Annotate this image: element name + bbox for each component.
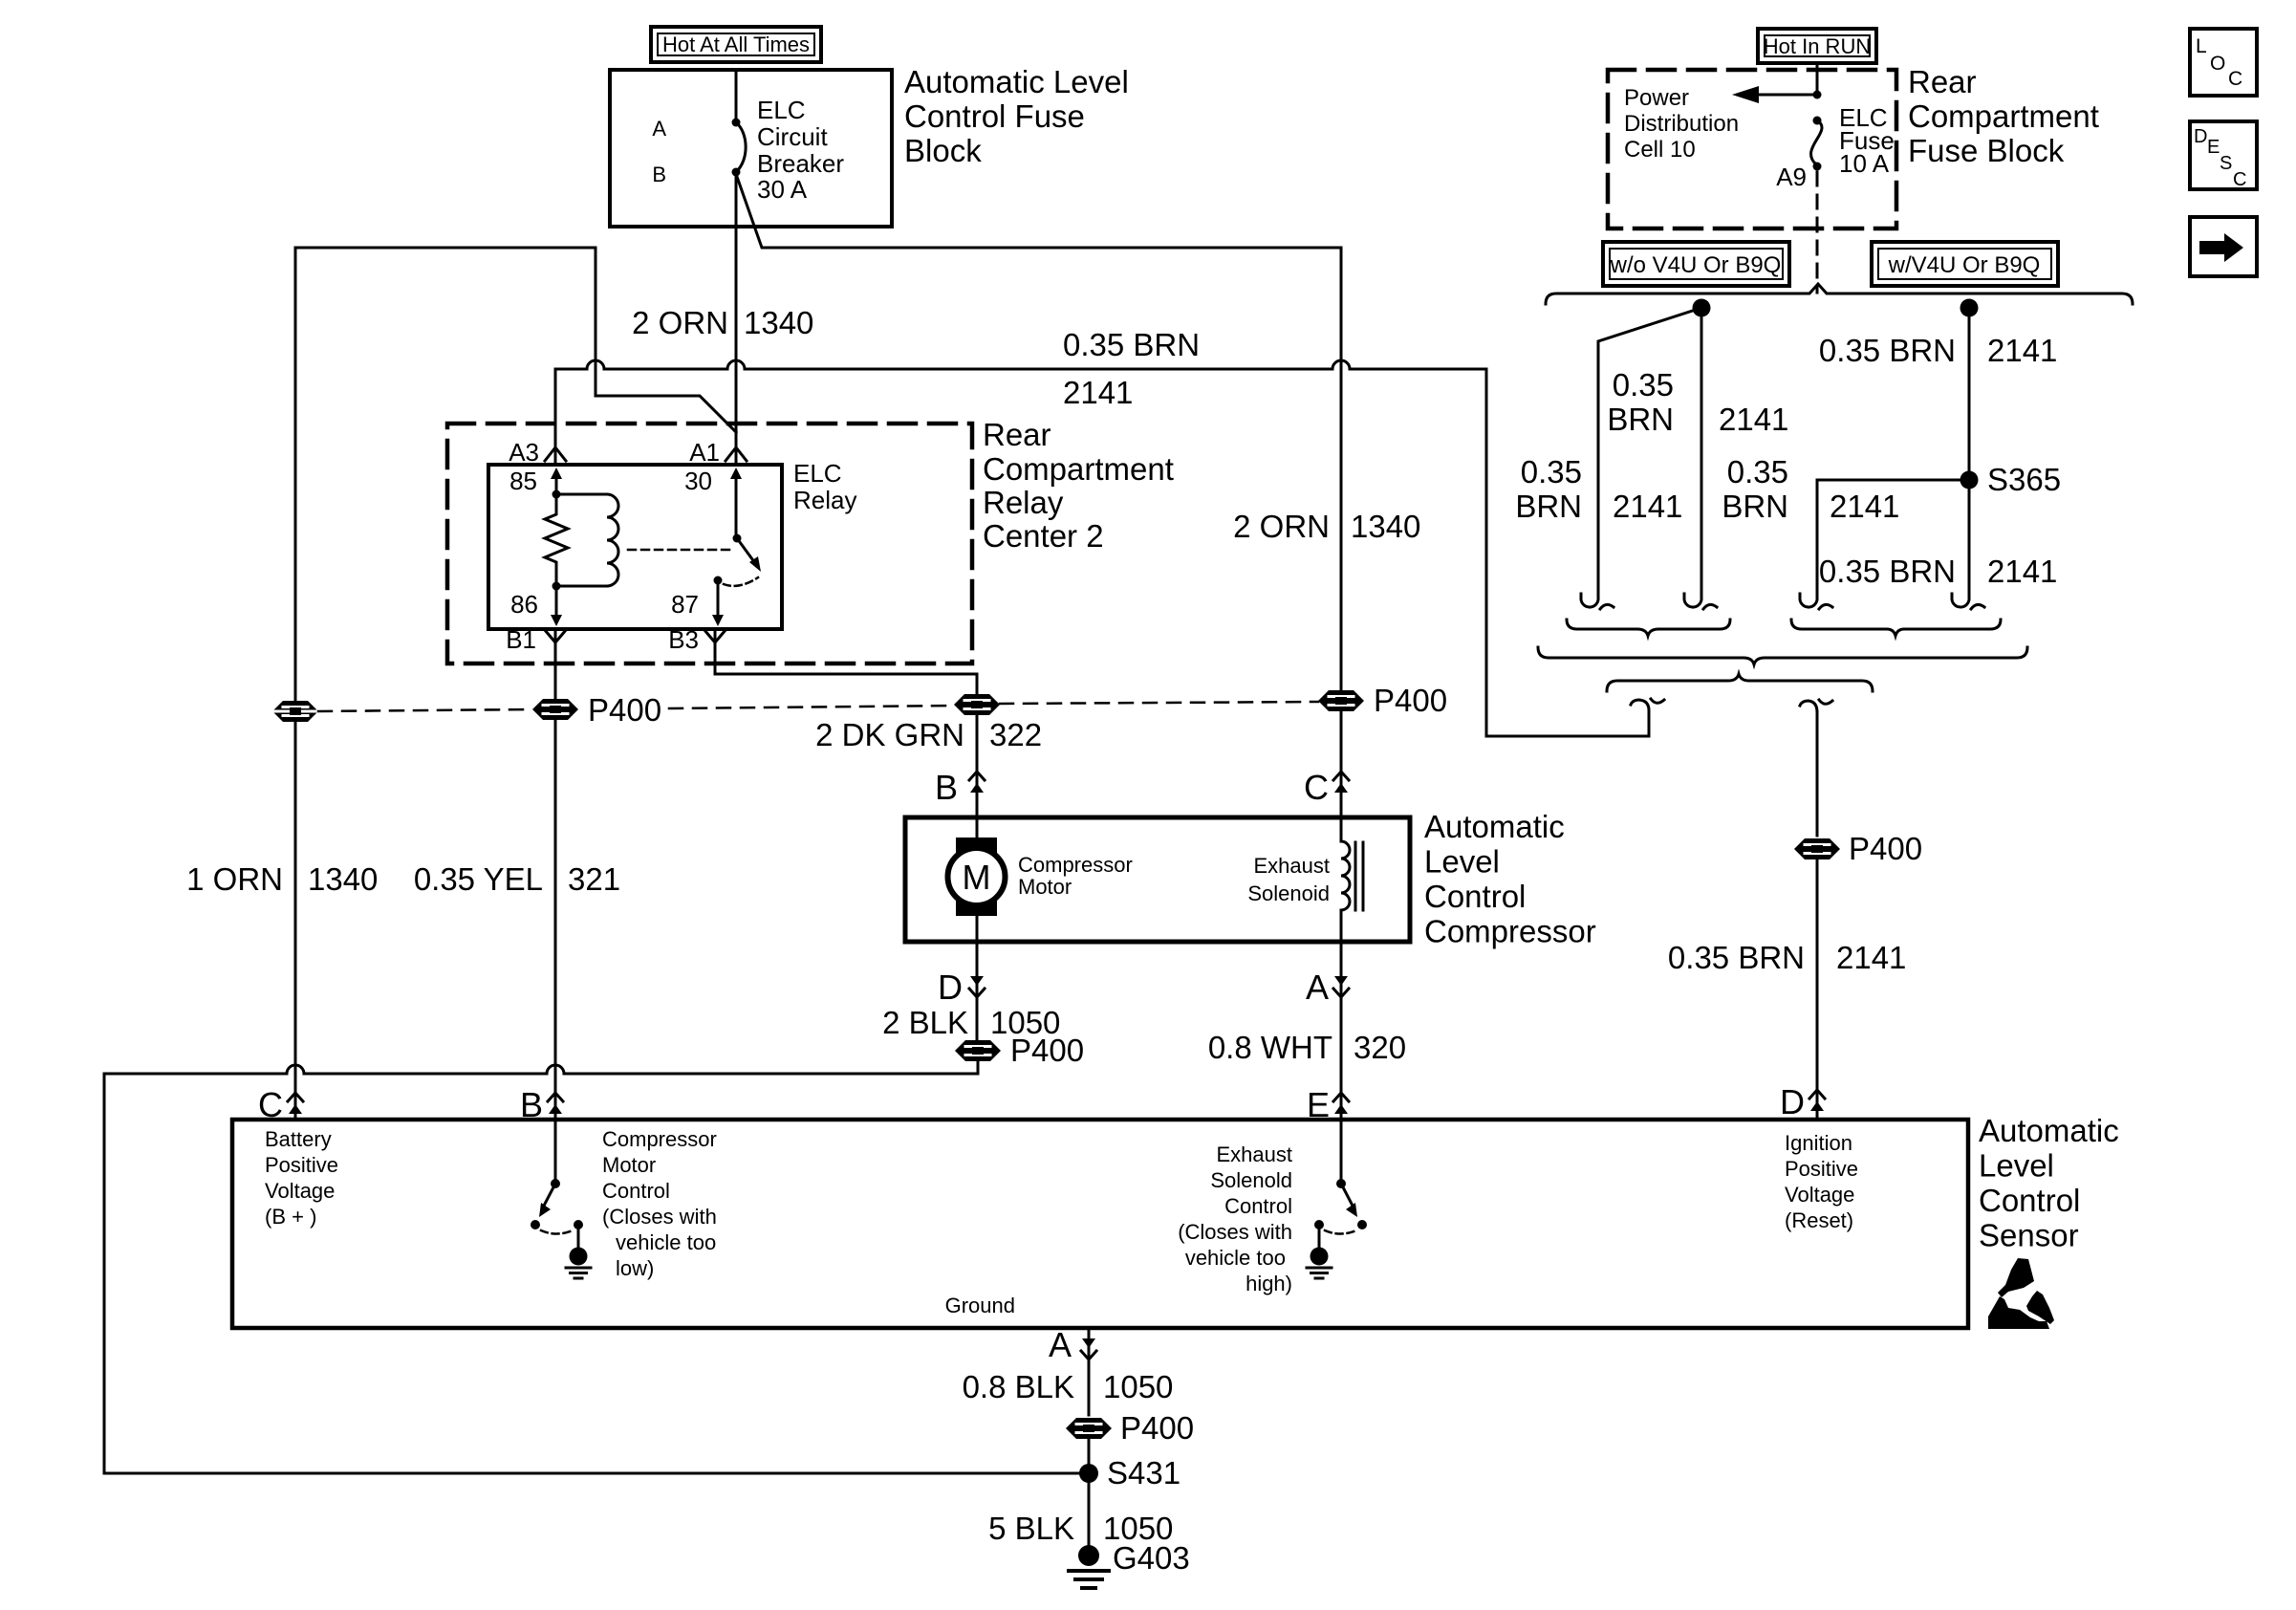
svg-text:high): high) bbox=[1245, 1272, 1292, 1295]
header box: Hot In RUN bbox=[1758, 29, 1876, 63]
node: fuse bottom A9 bbox=[1813, 163, 1822, 171]
svg-text:Compressor: Compressor bbox=[1424, 914, 1596, 949]
svg-text:S: S bbox=[2220, 153, 2232, 174]
wire: B3 to compressor B (2 DK GRN 322) bbox=[715, 629, 977, 817]
svg-text:0.35 BRN: 0.35 BRN bbox=[1819, 554, 1956, 589]
svg-text:Motor: Motor bbox=[1018, 875, 1072, 899]
dashed wire from A9 to brace bbox=[1816, 172, 1819, 293]
title: Automatic Level Control Sensor bbox=[1979, 1113, 2119, 1253]
svg-text:2 ORN: 2 ORN bbox=[1233, 509, 1330, 544]
svg-text:ELC: ELC bbox=[793, 459, 842, 488]
version box: w/o V4U Or B9Q bbox=[1603, 242, 1789, 286]
svg-text:P400: P400 bbox=[588, 692, 661, 728]
wire: 2 ORN 1340 right vertical down to compressor C bbox=[1340, 248, 1343, 817]
wire: P400 left to ground run bbox=[104, 1061, 1089, 1473]
svg-text:87: 87 bbox=[671, 590, 699, 619]
pin 85 arrow bbox=[555, 478, 558, 494]
svg-text:Control: Control bbox=[602, 1179, 670, 1203]
svg-text:Ignition: Ignition bbox=[1785, 1131, 1852, 1155]
wire: S365 left branch bbox=[1817, 480, 1969, 585]
switch arm (motor control) bbox=[543, 1184, 555, 1207]
svg-text:Automatic: Automatic bbox=[1979, 1113, 2119, 1148]
node: contact 87 bbox=[714, 577, 723, 585]
node: splice left (w/o) bbox=[1693, 299, 1711, 317]
label: 0.35 BRN 2141 (w/o right) bbox=[1607, 367, 1788, 437]
rear compartment fuse block dashed box bbox=[1608, 70, 1896, 228]
dashed arc contact to arm bbox=[724, 577, 758, 586]
wire: w/o right drop bbox=[1700, 308, 1703, 585]
ESD symbol bbox=[1988, 1258, 2054, 1329]
resistor R (relay) bbox=[545, 494, 568, 586]
ground hatches bbox=[566, 1268, 591, 1278]
hook end bbox=[1800, 583, 1832, 609]
wire: 0.35 BRN down right side to brace bbox=[1486, 369, 1649, 736]
svg-text:2141: 2141 bbox=[1063, 375, 1133, 410]
svg-text:(Closes with: (Closes with bbox=[1178, 1220, 1292, 1244]
svg-text:2141: 2141 bbox=[1830, 489, 1899, 524]
svg-text:0.35: 0.35 bbox=[1613, 367, 1674, 402]
svg-text:Center 2: Center 2 bbox=[983, 518, 1104, 554]
wire: diagonal to left drop bbox=[1598, 308, 1701, 585]
label: 2 ORN 1340 (right) bbox=[1233, 509, 1420, 544]
label: 0.35 BRN 2141 bbox=[1063, 327, 1200, 410]
corner box: LOC bbox=[2190, 29, 2257, 96]
node: distribution tap bbox=[1813, 91, 1822, 99]
wire: 0.35 YEL 321 B1 down to sensor B bbox=[554, 629, 557, 1120]
svg-text:A: A bbox=[652, 117, 666, 141]
svg-text:1 ORN: 1 ORN bbox=[186, 861, 283, 897]
pin B3 chevron bbox=[704, 630, 726, 642]
fuse block: Automatic Level Control Fuse Block box bbox=[610, 70, 892, 227]
svg-text:Cell 10: Cell 10 bbox=[1624, 137, 1696, 163]
svg-text:Hot At All Times: Hot At All Times bbox=[662, 33, 810, 56]
relay center dashed box bbox=[447, 424, 972, 664]
connector P400 (2 BLK) bbox=[955, 1040, 1001, 1061]
svg-text:Control: Control bbox=[1224, 1194, 1292, 1218]
svg-text:w/o V4U Or B9Q: w/o V4U Or B9Q bbox=[1610, 252, 1782, 278]
wire: A3 vertical bbox=[554, 369, 557, 465]
svg-text:C: C bbox=[1304, 768, 1329, 807]
svg-text:P400: P400 bbox=[1010, 1033, 1084, 1068]
node: contact right bbox=[574, 1220, 583, 1229]
svg-text:A1: A1 bbox=[689, 438, 720, 467]
svg-text:86: 86 bbox=[510, 590, 538, 619]
ground stem and ball bbox=[577, 1225, 580, 1249]
dashed harness line between P400s bbox=[318, 709, 532, 711]
svg-text:Positive: Positive bbox=[1785, 1157, 1858, 1181]
svg-text:0.8 BLK: 0.8 BLK bbox=[963, 1369, 1074, 1404]
wire: 1 ORN 1340 left vertical down to sensor C bbox=[294, 248, 297, 1120]
svg-text:M: M bbox=[963, 858, 991, 897]
svg-text:(B + ): (B + ) bbox=[265, 1205, 316, 1229]
svg-text:E: E bbox=[2207, 137, 2220, 158]
svg-text:1340: 1340 bbox=[308, 861, 378, 897]
hook end bbox=[1581, 583, 1614, 609]
svg-text:P400: P400 bbox=[1849, 831, 1922, 866]
svg-text:2141: 2141 bbox=[1719, 402, 1788, 437]
brace: small left bbox=[1567, 620, 1730, 636]
svg-text:Battery: Battery bbox=[265, 1127, 332, 1151]
svg-text:Automatic Level: Automatic Level bbox=[904, 64, 1129, 99]
svg-text:Distribution: Distribution bbox=[1624, 111, 1739, 137]
wire: coil bottom link bbox=[556, 585, 607, 588]
svg-text:Voltage: Voltage bbox=[265, 1179, 335, 1203]
svg-text:Compartment: Compartment bbox=[983, 451, 1174, 487]
ground hatches E bbox=[1307, 1268, 1332, 1278]
svg-text:Sensor: Sensor bbox=[1979, 1218, 2079, 1253]
title: Automatic Level Control Fuse Block bbox=[904, 64, 1129, 168]
label: Exhaust Solenoid bbox=[1247, 854, 1330, 905]
switch arm (solenoid control) bbox=[1341, 1184, 1354, 1207]
svg-text:1340: 1340 bbox=[1351, 509, 1420, 544]
svg-text:Fuse Block: Fuse Block bbox=[1908, 133, 2065, 168]
wire: to S365 bbox=[1968, 308, 1971, 480]
wire: Hot In RUN into fuse bbox=[1816, 63, 1819, 95]
label: 0.35 BRN 2141 (to D) bbox=[1668, 940, 1907, 975]
dashed arc switch B bbox=[541, 1230, 573, 1234]
svg-text:D: D bbox=[2194, 126, 2207, 147]
svg-text:A3: A3 bbox=[509, 438, 539, 467]
svg-text:D: D bbox=[1780, 1082, 1805, 1121]
label: 0.35 BRN 2141 (S365 left) bbox=[1722, 454, 1899, 524]
svg-text:B1: B1 bbox=[506, 625, 536, 654]
sensor box: Automatic Level Control Sensor bbox=[232, 1120, 1968, 1328]
svg-text:Solenold: Solenold bbox=[1210, 1168, 1292, 1192]
svg-text:0.35: 0.35 bbox=[1521, 454, 1582, 490]
svg-text:B3: B3 bbox=[668, 625, 699, 654]
svg-text:Control: Control bbox=[1424, 879, 1526, 914]
pin C (sensor) bbox=[288, 1093, 303, 1114]
connector P400 (2 ORN right) bbox=[1318, 690, 1364, 711]
hook end bbox=[1684, 583, 1717, 609]
svg-text:P400: P400 bbox=[1374, 683, 1447, 718]
svg-text:Level: Level bbox=[1979, 1148, 2054, 1184]
wire: E pin into switch bbox=[1340, 1120, 1343, 1184]
wire: output to P400 D bbox=[1800, 700, 1832, 836]
label: 2 DK GRN 322 bbox=[815, 717, 1042, 752]
svg-text:Exhaust: Exhaust bbox=[1254, 854, 1331, 878]
corner box: arrow bbox=[2190, 217, 2257, 276]
svg-text:2141: 2141 bbox=[1613, 489, 1682, 524]
ground G403 bbox=[1069, 1545, 1109, 1588]
svg-text:30 A: 30 A bbox=[757, 175, 808, 204]
pin B (sensor) bbox=[548, 1093, 563, 1114]
svg-text:C: C bbox=[258, 1085, 283, 1124]
title: Rear Compartment Relay Center 2 bbox=[983, 417, 1174, 554]
brace: over (output) bbox=[1607, 674, 1873, 691]
svg-text:Compartment: Compartment bbox=[1908, 98, 2099, 134]
svg-text:2141: 2141 bbox=[1987, 554, 2057, 589]
svg-text:S365: S365 bbox=[1987, 462, 2061, 497]
svg-text:vehicle too: vehicle too bbox=[616, 1230, 716, 1254]
svg-text:Power: Power bbox=[1624, 85, 1689, 111]
brace: big under bbox=[1538, 647, 2027, 664]
pin A (compressor) bbox=[1333, 976, 1349, 997]
svg-text:A: A bbox=[1306, 968, 1329, 1007]
pin A1 chevron bbox=[726, 447, 747, 461]
wire: diagonal from breaker B to right feed bbox=[736, 174, 1341, 248]
pin B (compressor) bbox=[969, 772, 985, 793]
svg-text:B: B bbox=[520, 1085, 543, 1124]
svg-text:Voltage: Voltage bbox=[1785, 1183, 1854, 1207]
fuse ELC Fuse 10A curve bbox=[1811, 120, 1822, 164]
connector P400 (B1) bbox=[532, 699, 578, 720]
svg-text:(Reset): (Reset) bbox=[1785, 1208, 1853, 1232]
compressor motor M bbox=[948, 838, 1006, 916]
svg-text:Control Fuse: Control Fuse bbox=[904, 98, 1085, 134]
node A of circuit breaker bbox=[732, 119, 741, 127]
svg-text:E: E bbox=[1307, 1085, 1330, 1124]
label: 0.35 BRN 2141 (above S365) bbox=[1819, 333, 2058, 368]
node: switch pivot E bbox=[1336, 1179, 1346, 1188]
connector P400 (2 DK GRN) bbox=[954, 694, 1000, 715]
svg-text:Solenoid: Solenoid bbox=[1247, 881, 1330, 905]
node: contact left bbox=[531, 1220, 540, 1229]
header box: Hot At All Times bbox=[651, 27, 821, 62]
svg-text:1050: 1050 bbox=[1103, 1369, 1173, 1404]
svg-text:ELC: ELC bbox=[757, 96, 806, 124]
svg-text:Compressor: Compressor bbox=[1018, 853, 1133, 877]
label: Power Distribution Cell 10 bbox=[1624, 85, 1739, 163]
svg-text:321: 321 bbox=[568, 861, 620, 897]
label: Compressor Motor Control bbox=[602, 1127, 717, 1280]
pin A3 chevron bbox=[545, 447, 566, 461]
svg-text:(Closes with: (Closes with bbox=[602, 1205, 717, 1229]
label: ELC Circuit Breaker 30 A bbox=[757, 96, 844, 204]
node: contact left E bbox=[1314, 1220, 1324, 1229]
arrow to Power Distribution bbox=[1755, 94, 1817, 97]
wire: top-left horizontal bbox=[295, 247, 596, 250]
svg-text:low): low) bbox=[616, 1256, 654, 1280]
wire: 2 ORN 1340 from breaker B down to relay A1 bbox=[735, 172, 738, 465]
relay: ELC Relay box bbox=[488, 465, 782, 629]
svg-text:L: L bbox=[2196, 35, 2207, 57]
connector P400 (0.35 BRN D) bbox=[1794, 838, 1840, 859]
svg-text:Level: Level bbox=[1424, 844, 1500, 880]
ground stem and ball E bbox=[1318, 1225, 1321, 1249]
svg-text:2141: 2141 bbox=[1836, 940, 1906, 975]
svg-text:vehicle too: vehicle too bbox=[1185, 1246, 1286, 1270]
svg-text:w/V4U Or B9Q: w/V4U Or B9Q bbox=[1888, 252, 2041, 278]
svg-text:30: 30 bbox=[684, 467, 712, 495]
label: 2 ORN 1340 (top) bbox=[632, 305, 813, 340]
svg-text:Block: Block bbox=[904, 133, 982, 168]
label: 0.8 BLK 1050 bbox=[963, 1369, 1174, 1404]
label: Compressor Motor bbox=[1018, 853, 1133, 899]
svg-text:Ground: Ground bbox=[945, 1294, 1015, 1317]
svg-text:O: O bbox=[2210, 53, 2225, 75]
svg-text:Circuit: Circuit bbox=[757, 122, 828, 151]
node: switch pivot bbox=[733, 534, 742, 543]
svg-text:10 A: 10 A bbox=[1839, 149, 1890, 178]
title: Automatic Level Control Compressor bbox=[1424, 809, 1596, 949]
dashed link coil to switch bbox=[628, 549, 729, 552]
svg-text:2 DK GRN: 2 DK GRN bbox=[815, 717, 964, 752]
svg-text:2 ORN: 2 ORN bbox=[632, 305, 728, 340]
svg-text:Motor: Motor bbox=[602, 1153, 656, 1177]
svg-text:G403: G403 bbox=[1113, 1540, 1190, 1576]
svg-text:Rear: Rear bbox=[983, 417, 1051, 452]
node: switch pivot B bbox=[551, 1179, 560, 1188]
node: coil top bbox=[552, 490, 561, 499]
node: contact right E bbox=[1357, 1220, 1367, 1229]
svg-text:BRN: BRN bbox=[1722, 489, 1788, 524]
wire: 0.8 WHT 320 down to sensor E bbox=[1340, 942, 1343, 1120]
wire: fuse block input from Hot At All Times bbox=[735, 70, 738, 122]
pin D (compressor) bbox=[969, 976, 985, 997]
svg-text:BRN: BRN bbox=[1607, 402, 1674, 437]
svg-text:Automatic: Automatic bbox=[1424, 809, 1565, 844]
exhaust solenoid coil bbox=[1341, 817, 1350, 942]
svg-text:0.35: 0.35 bbox=[1727, 454, 1788, 490]
wire: to coil top bbox=[556, 493, 607, 496]
svg-text:5 BLK: 5 BLK bbox=[988, 1511, 1074, 1546]
connector P400 (0.8 BLK) bbox=[1066, 1418, 1112, 1439]
node B of circuit breaker bbox=[732, 168, 741, 177]
corner box: DESC bbox=[2190, 121, 2257, 189]
svg-text:320: 320 bbox=[1354, 1030, 1406, 1065]
svg-text:2 BLK: 2 BLK bbox=[882, 1005, 968, 1040]
svg-text:B: B bbox=[652, 163, 666, 186]
svg-text:C: C bbox=[2233, 169, 2246, 190]
wire: S365 down branch bbox=[1968, 480, 1971, 585]
svg-text:0.35 YEL: 0.35 YEL bbox=[414, 861, 543, 897]
wire: 0.35 BRN 2141 horizontal with hops bbox=[555, 360, 1486, 369]
label: 5 BLK 1050 bbox=[988, 1511, 1173, 1546]
svg-text:B: B bbox=[935, 768, 958, 807]
label: 1 ORN 1340 bbox=[186, 861, 378, 897]
title: Rear Compartment Fuse Block bbox=[1908, 64, 2099, 168]
pin 30 arrow bbox=[735, 478, 738, 538]
label: Exhaust Solenold Control bbox=[1178, 1142, 1292, 1295]
wire: jog from top horizontal to relay A1 bbox=[596, 248, 736, 432]
svg-text:BRN: BRN bbox=[1515, 489, 1582, 524]
svg-text:Positive: Positive bbox=[265, 1153, 338, 1177]
label: 0.35 YEL 321 bbox=[414, 861, 620, 897]
wire: P400 down to sensor D bbox=[1816, 859, 1819, 1120]
splice S431 bbox=[1079, 1464, 1098, 1483]
svg-text:0.35 BRN: 0.35 BRN bbox=[1063, 327, 1200, 362]
svg-text:85: 85 bbox=[509, 467, 537, 495]
label: ELC Relay bbox=[793, 459, 856, 514]
switch arm (relay) bbox=[737, 538, 755, 563]
node: coil bottom bbox=[552, 582, 561, 591]
svg-text:1340: 1340 bbox=[744, 305, 813, 340]
connector P400 (1 ORN) bbox=[272, 701, 318, 722]
svg-text:322: 322 bbox=[989, 717, 1042, 752]
svg-text:0.35 BRN: 0.35 BRN bbox=[1668, 940, 1805, 975]
svg-text:P400: P400 bbox=[1120, 1410, 1194, 1446]
svg-text:Relay: Relay bbox=[793, 486, 856, 514]
svg-text:Hot In RUN: Hot In RUN bbox=[1764, 34, 1871, 58]
svg-text:2141: 2141 bbox=[1987, 333, 2057, 368]
node: splice right (w/V4U) bbox=[1960, 299, 1979, 317]
wire: 0.8 BLK 1050 bbox=[1088, 1328, 1091, 1415]
pin B1 chevron bbox=[545, 630, 566, 642]
svg-text:0.8 WHT: 0.8 WHT bbox=[1208, 1030, 1332, 1065]
wire: motor to box bottom bbox=[976, 817, 979, 942]
svg-text:Rear: Rear bbox=[1908, 64, 1977, 99]
pin 87 arrow bbox=[717, 580, 720, 616]
brace: small right bbox=[1791, 620, 2001, 636]
label: 0.35 BRN 2141 (below S365) bbox=[1819, 554, 2058, 589]
svg-text:C: C bbox=[2228, 68, 2242, 90]
label: Ignition Positive Voltage (Reset) bbox=[1785, 1131, 1858, 1232]
svg-text:A: A bbox=[1049, 1325, 1072, 1364]
pin 86 arrow bbox=[555, 586, 558, 616]
node: fuse top bbox=[1813, 117, 1822, 125]
pin E (sensor) bbox=[1333, 1093, 1349, 1114]
wire: D down to P400 bbox=[976, 942, 979, 1039]
solenoid core bars bbox=[1355, 842, 1363, 910]
hook end bbox=[1952, 583, 1984, 609]
svg-text:D: D bbox=[938, 968, 963, 1007]
circuit breaker CB1 curve bbox=[736, 122, 746, 172]
label: 2 BLK 1050 bbox=[882, 1005, 1060, 1040]
wire: P400 to G403 bbox=[1088, 1439, 1091, 1545]
svg-text:Exhaust: Exhaust bbox=[1217, 1142, 1293, 1166]
pin C (compressor) bbox=[1333, 772, 1349, 793]
svg-text:S431: S431 bbox=[1107, 1455, 1180, 1490]
label: Battery Positive Voltage (B+) bbox=[265, 1127, 338, 1229]
pin A (sensor ground) bbox=[1081, 1338, 1096, 1360]
brace: top wide bbox=[1546, 284, 2133, 304]
version box: w/V4U Or B9Q bbox=[1872, 242, 2058, 286]
dashed arc switch E bbox=[1325, 1230, 1356, 1234]
compressor box: Automatic Level Control Compressor bbox=[905, 817, 1410, 942]
svg-text:Relay: Relay bbox=[983, 485, 1064, 520]
pin D (sensor) bbox=[1809, 1090, 1825, 1111]
wire: hook up to overbrace bbox=[1631, 699, 1664, 736]
wire: B pin into switch bbox=[554, 1120, 557, 1184]
svg-text:0.35 BRN: 0.35 BRN bbox=[1819, 333, 1956, 368]
label: 0.8 WHT 320 bbox=[1208, 1030, 1406, 1065]
svg-text:Compressor: Compressor bbox=[602, 1127, 717, 1151]
splice S365 bbox=[1960, 471, 1979, 490]
coil L1 (relay) bbox=[607, 494, 618, 586]
label: 0.35 BRN 2141 (w/o left) bbox=[1515, 454, 1682, 524]
svg-text:A9: A9 bbox=[1776, 163, 1807, 191]
svg-text:Breaker: Breaker bbox=[757, 149, 844, 178]
label: ELC Fuse 10 A bbox=[1839, 103, 1895, 178]
svg-text:Control: Control bbox=[1979, 1183, 2080, 1218]
